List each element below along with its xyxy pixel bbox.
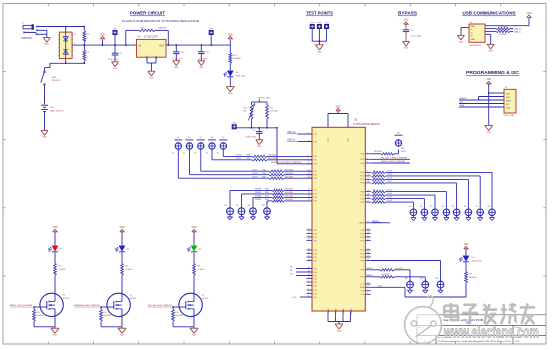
- ground for pad S12: [264, 215, 269, 220]
- svg-text:VDD: VDD: [228, 34, 233, 36]
- net label USB_D-: [514, 32, 522, 34]
- svg-text:360-0805: 360-0805: [285, 176, 293, 178]
- svg-text:0.1uF, 0603: 0.1uF, 0603: [411, 36, 422, 38]
- resistor R8 75-0805: [193, 263, 205, 276]
- ground for pad B3: [432, 216, 437, 221]
- svg-text:SDA: SDA: [360, 286, 365, 289]
- capacitor C3 10uF_0805: [198, 44, 210, 61]
- svg-text:10uF, 0805: 10uF, 0805: [198, 58, 209, 60]
- wire J2 GND pin to ground: [485, 34, 491, 44]
- resistor 360-0805 COL6 right: [372, 178, 469, 209]
- svg-text:POWER CIRCUIT: POWER CIRCUIT: [130, 11, 165, 16]
- svg-text:30: 30: [367, 235, 369, 237]
- wire bottom bus to mode LED: [405, 296, 466, 298]
- pad E13 XTLE: [395, 133, 407, 153]
- wire regulator bypass loop with R7: [125, 30, 169, 46]
- svg-text:R7: R7: [141, 27, 145, 29]
- capsense pad S10: [248, 205, 257, 215]
- svg-text:G: G: [342, 319, 344, 321]
- svg-text:D5: D5: [199, 249, 202, 251]
- LED D6 PWR_LED: [224, 71, 246, 78]
- svg-text:PLACE 0-OHM RESISTOR TO BYPASS: PLACE 0-OHM RESISTOR TO BYPASS REGULATOR: [122, 19, 200, 23]
- svg-text:46: 46: [367, 282, 369, 284]
- svg-text:20: 20: [367, 197, 369, 199]
- net label USB_D- wire to U2: [287, 140, 312, 142]
- wire SCL to J3: [459, 102, 504, 104]
- svg-text:GND: GND: [337, 330, 342, 332]
- net label GREEN LED DRIVE: [74, 305, 100, 307]
- capsense pad B3: [431, 206, 439, 216]
- ground GND below U4: [148, 71, 155, 79]
- ground GND bypass: [403, 41, 410, 49]
- svg-text:VDD: VDD: [464, 244, 469, 246]
- LED D4 MODE_LED: [460, 256, 483, 263]
- svg-text:C3: C3: [206, 52, 210, 54]
- svg-text:360: 360: [373, 174, 376, 176]
- capsense pad S8: [236, 205, 245, 215]
- svg-text:6: 6: [308, 292, 309, 294]
- svg-text:32: 32: [367, 239, 369, 241]
- svg-text:SDA: SDA: [378, 284, 383, 287]
- svg-text:GND: GND: [44, 44, 49, 46]
- svg-text:SW1: SW1: [52, 77, 58, 79]
- svg-text:37: 37: [308, 255, 310, 257]
- net label USB_D+ wire to U2: [287, 132, 312, 134]
- svg-text:S3: S3: [194, 152, 196, 154]
- resistor R4: [83, 44, 90, 64]
- ground GND below C2: [173, 61, 180, 69]
- svg-text:S5: S5: [452, 206, 454, 208]
- power flag VDD green led drive: [120, 227, 125, 246]
- resistor 360-0805 COL4 right: [372, 171, 493, 209]
- svg-text:VDD: VDD: [120, 227, 125, 229]
- ground for pad B5: [454, 216, 459, 221]
- wire R2 to Q1 drain: [54, 276, 56, 295]
- svg-text:TEST POINTS: TEST POINTS: [306, 11, 333, 16]
- svg-text:U4: U4: [138, 37, 142, 39]
- svg-text:R11: R11: [36, 312, 39, 314]
- LED D2 green: [116, 246, 130, 252]
- capsense pad E2: [186, 137, 194, 150]
- svg-text:COL7: COL7: [236, 158, 242, 160]
- svg-text:330-0805: 330-0805: [233, 58, 241, 60]
- resistor R14 2.2K-0805: [266, 102, 279, 128]
- capacitor C4 0.47uF 0805: [245, 128, 263, 140]
- svg-text:C4: C4: [253, 130, 256, 132]
- wire pad E1 to resistor row: [172, 150, 269, 178]
- wire mode bus down to U2: [276, 127, 312, 164]
- resistor 360-0805 COL7 right: [372, 181, 457, 209]
- capsense pad E3: [197, 137, 205, 150]
- wire Q1 source to ground: [34, 316, 55, 328]
- svg-text:26: 26: [367, 228, 369, 230]
- svg-text:360-0805: 360-0805: [285, 173, 293, 175]
- svg-text:GND: GND: [459, 41, 464, 43]
- capsense pad B2: [420, 206, 428, 216]
- net SDA wire from U2: [371, 284, 405, 297]
- svg-text:1.0uF_0805: 1.0uF_0805: [108, 59, 120, 61]
- svg-text:XRES: XRES: [506, 101, 512, 103]
- svg-text:S7: S7: [476, 206, 478, 208]
- svg-text:JUMPER: JUMPER: [499, 26, 507, 28]
- svg-text:48: 48: [367, 286, 369, 288]
- svg-text:GND: GND: [336, 308, 338, 313]
- test point TP2: [310, 22, 315, 41]
- power flag VDD programming: [486, 79, 491, 84]
- svg-text:COL4: COL4: [252, 176, 258, 178]
- svg-text:SW-SPDT: SW-SPDT: [52, 80, 62, 82]
- variable resistor R13: [243, 102, 255, 128]
- svg-text:RED LED DRIVE: RED LED DRIVE: [381, 161, 406, 163]
- svg-text:360: 360: [373, 197, 376, 199]
- svg-text:GND: GND: [113, 68, 118, 70]
- svg-text:JUMPER: JUMPER: [158, 27, 167, 29]
- wire gate Q2: [100, 306, 114, 308]
- wire D1 top pin: [65, 27, 67, 33]
- wire J1 middle pin to ground: [37, 30, 47, 37]
- svg-text:R4: R4: [87, 52, 91, 54]
- svg-text:R13: R13: [243, 107, 248, 109]
- ground GND below BT1: [41, 131, 48, 139]
- svg-text:33: 33: [308, 248, 310, 250]
- resistor 360-0805 COL0 right: [372, 190, 447, 209]
- resistor R24 360-0805 ROW3: [367, 274, 426, 281]
- net BLUE LED DRIVE wire: [371, 157, 410, 159]
- transistor Q3 2N7002: [179, 293, 209, 316]
- wire main 5V rail: [84, 44, 230, 46]
- voltage regulator U4 LT1121CST-5: [133, 37, 169, 60]
- section title BYPASS: [398, 11, 417, 16]
- svg-text:S8: S8: [488, 206, 490, 208]
- resistor R18 360-0805 COL6: [236, 155, 312, 158]
- svg-text:G: G: [327, 319, 329, 321]
- svg-text:D3: D3: [60, 249, 63, 251]
- svg-text:GND: GND: [228, 93, 233, 95]
- svg-text:360-0805: 360-0805: [374, 151, 382, 153]
- wire gate Q3: [172, 306, 186, 308]
- capsense pad E5: [219, 137, 227, 150]
- svg-text:1: 1: [367, 289, 368, 291]
- svg-text:Q1: Q1: [63, 295, 67, 297]
- svg-text:360-0805: 360-0805: [268, 155, 276, 157]
- svg-text:24: 24: [367, 221, 369, 223]
- svg-text:360: 360: [373, 178, 376, 180]
- svg-text:BATT-9-ALK-E: BATT-9-ALK-E: [51, 109, 65, 112]
- wire RESET to J3: [459, 98, 504, 100]
- svg-text:E17: E17: [405, 278, 408, 280]
- svg-text:GND: GND: [404, 48, 409, 50]
- watermark logo circle: [405, 296, 442, 343]
- resistor 360-0805 COL3 right: [372, 200, 414, 208]
- svg-text:IN: IN: [138, 45, 141, 48]
- resistor R23 360-0805 ROW2: [367, 268, 411, 281]
- svg-text:R0: R0: [290, 267, 292, 269]
- watermark text dian zi fa shao you: [444, 303, 535, 325]
- U2 right pin stubs and pin names: [359, 152, 371, 296]
- svg-text:VDD: VDD: [192, 227, 197, 229]
- svg-text:J2: J2: [470, 22, 473, 24]
- svg-text:D2: D2: [127, 249, 130, 251]
- capsense pad E17: [405, 278, 413, 288]
- svg-text:BLUE LED DRIVE: BLUE LED DRIVE: [381, 157, 408, 159]
- svg-text:COL1: COL1: [387, 193, 393, 195]
- capacitor C5 0.1uF 0603: [403, 30, 422, 42]
- ground GND below U2: [335, 324, 343, 332]
- wire R5 to Q2 drain: [121, 276, 123, 295]
- svg-text:27: 27: [308, 232, 310, 234]
- svg-text:360-0805: 360-0805: [382, 274, 390, 276]
- svg-text:+: +: [40, 102, 42, 104]
- section title USB COMMUNICATIONS: [462, 11, 516, 16]
- wire R8 to Q3 drain: [193, 276, 195, 295]
- svg-text:USB_D-: USB_D-: [514, 32, 522, 34]
- svg-text:COL2: COL2: [387, 197, 393, 199]
- switch SW1 SW-SPDT: [41, 63, 62, 85]
- net label BLUE LED DRIVE: [148, 305, 172, 307]
- svg-text:6: 6: [367, 161, 368, 163]
- resistor R14 360-0805 COL3: [252, 173, 312, 176]
- capacitor C2 0.1uF_0603: [172, 44, 185, 61]
- resistor R5 75-0805: [121, 263, 133, 276]
- svg-text:SCL: SCL: [506, 104, 510, 106]
- svg-text:PWRCON: PWRCON: [22, 38, 33, 40]
- svg-text:XRES: XRES: [359, 223, 365, 225]
- wire top rail from J1 to R3: [37, 26, 85, 28]
- svg-text:VBus: VBus: [471, 26, 476, 28]
- LED D5 blue: [188, 246, 202, 252]
- svg-text:RESET: RESET: [460, 98, 468, 100]
- wire J3 pin1 to VDD rail: [488, 92, 504, 94]
- svg-text:COL7: COL7: [387, 181, 393, 183]
- ground GND below C4: [256, 140, 263, 148]
- svg-text:VCC: VCC: [328, 137, 330, 142]
- note REMOVE LED DRIVE JUMPERS: [271, 162, 302, 164]
- power flag VDD USB: [527, 13, 532, 17]
- ground GND below J2: [487, 44, 494, 52]
- svg-text:ROW3: ROW3: [367, 275, 374, 277]
- transistor Q1 2N7002: [40, 293, 70, 316]
- svg-text:GND: GND: [53, 335, 58, 337]
- test point TP6: [209, 28, 214, 46]
- svg-text:GND: GND: [486, 132, 491, 134]
- net label RESET wire right: [371, 221, 390, 223]
- svg-text:4: 4: [308, 288, 309, 290]
- svg-text:COL6: COL6: [387, 178, 393, 180]
- svg-text:R2: R2: [290, 274, 292, 276]
- capsense pad B6: [464, 206, 472, 216]
- svg-text:28: 28: [367, 232, 369, 234]
- svg-text:5: 5: [168, 43, 169, 45]
- svg-text:GND: GND: [317, 51, 322, 53]
- svg-text:10K-0805: 10K-0805: [103, 315, 111, 317]
- wire D5 to R8: [193, 252, 195, 263]
- svg-text:D4: D4: [472, 257, 475, 259]
- ground GND below D6: [226, 87, 234, 96]
- wire U4 ground pins to GND: [147, 57, 156, 71]
- net label RED LED DRIVE: [10, 305, 33, 307]
- svg-text:VDD: VDD: [336, 106, 341, 108]
- svg-text:R12: R12: [103, 312, 106, 314]
- svg-text:S2: S2: [420, 206, 422, 208]
- section title PROGRAMMING & I2C: [466, 70, 519, 75]
- wire gate Q1: [33, 306, 47, 308]
- svg-text:GND: GND: [174, 67, 179, 69]
- svg-text:4: 4: [367, 158, 368, 160]
- svg-text:J1: J1: [22, 23, 25, 25]
- svg-text:BT1: BT1: [51, 107, 56, 109]
- watermark text www.elecfans.com: [443, 323, 539, 342]
- ground GND blue led drive: [190, 328, 198, 336]
- svg-text:ROW3: ROW3: [255, 199, 262, 201]
- svg-text:USB_D+: USB_D+: [514, 29, 523, 31]
- svg-text:www.elecfans.com: www.elecfans.com: [443, 323, 539, 342]
- capsense pad B5: [452, 206, 460, 216]
- wire Q2 source to ground: [101, 316, 122, 328]
- svg-text:SDA: SDA: [460, 104, 465, 107]
- svg-text:8: 8: [367, 171, 368, 173]
- svg-text:29: 29: [308, 235, 310, 237]
- resistor R21 360-0805 ROW2: [255, 196, 312, 199]
- wire D3 to R2: [54, 252, 56, 263]
- svg-text:12: 12: [367, 178, 369, 180]
- svg-text:COL0: COL0: [387, 190, 393, 192]
- svg-text:E13: E13: [397, 133, 400, 135]
- svg-text:TAB: TAB: [155, 55, 158, 59]
- svg-text:GND: GND: [120, 335, 125, 337]
- svg-text:R14: R14: [270, 107, 275, 109]
- svg-text:R15: R15: [175, 312, 178, 314]
- svg-text:E13: E13: [401, 148, 404, 150]
- svg-text:360-0805: 360-0805: [285, 196, 293, 198]
- svg-text:47: 47: [308, 277, 310, 279]
- svg-text:R10: R10: [233, 55, 238, 57]
- svg-text:COL4: COL4: [387, 171, 393, 173]
- resistor R2 75-0805: [54, 263, 66, 276]
- svg-text:S12: S12: [262, 205, 265, 207]
- ground for pad E19: [423, 288, 428, 293]
- ground GND below C1: [112, 62, 119, 70]
- wire pad S10 to row: [253, 197, 272, 207]
- ground GND programming: [485, 125, 493, 134]
- LED D3 red: [49, 246, 63, 252]
- ground for pad S6: [227, 215, 232, 220]
- svg-text:360-0805: 360-0805: [285, 189, 293, 191]
- svg-text:2N7002: 2N7002: [63, 298, 71, 300]
- svg-text:USB COMMUNICATIONS: USB COMMUNICATIONS: [463, 11, 516, 16]
- connector J1 PWRCON: [22, 23, 38, 40]
- capsense pad B7: [476, 206, 484, 216]
- wire D6 to ground: [229, 77, 231, 87]
- ground GND test points: [315, 45, 323, 54]
- power flag VDD at rail end: [228, 34, 233, 45]
- wire J2 shield to ground: [461, 28, 469, 36]
- svg-text:BYPASS: BYPASS: [398, 11, 417, 16]
- resistor R10 330-0805: [229, 45, 241, 70]
- svg-text:COL6: COL6: [236, 155, 242, 157]
- svg-text:COL2: COL2: [252, 169, 258, 171]
- wire pad E2 to resistor row: [183, 150, 269, 175]
- resistor R12 10K-0805: [100, 307, 111, 327]
- resistor 360-0805 COL1 right: [372, 193, 436, 208]
- svg-text:LT1121CST-5: LT1121CST-5: [144, 37, 159, 39]
- wire Q3 source to ground: [173, 316, 194, 328]
- connector J3 ISSP_CON: [504, 87, 517, 117]
- ground GND left of J2: [458, 35, 465, 43]
- wire VDD rail programming: [488, 84, 490, 126]
- resistor R7 JUMPER: [139, 27, 167, 31]
- svg-text:R2: R2: [58, 265, 61, 267]
- ground for pad S10: [250, 215, 255, 220]
- svg-text:USB MINI B: USB MINI B: [469, 45, 481, 47]
- svg-text:0: 0: [87, 57, 88, 59]
- resistor R9 22 on USB D-: [485, 30, 513, 36]
- wire U2 to pad row2 bottom right: [371, 261, 441, 282]
- svg-text:U2: U2: [354, 119, 358, 122]
- svg-text:39: 39: [308, 259, 310, 261]
- svg-text:D6: D6: [236, 72, 240, 74]
- svg-text:34: 34: [367, 248, 369, 250]
- capsense pad E21: [436, 278, 444, 288]
- svg-text:18: 18: [367, 193, 369, 195]
- wire D4 to R20: [465, 262, 467, 271]
- svg-text:COL5: COL5: [387, 174, 393, 176]
- U2 bottom pins to ground: [327, 311, 352, 324]
- battery BT1: [40, 102, 64, 112]
- ground for pad B8: [489, 216, 494, 221]
- svg-text:S6: S6: [225, 205, 227, 207]
- svg-text:Cap sense with LED PCB: Cap sense with LED PCB: [443, 318, 483, 322]
- net RED LED DRIVE wire: [371, 161, 410, 163]
- svg-text:VDD: VDD: [506, 94, 511, 96]
- svg-text:PWR_LED: PWR_LED: [236, 75, 246, 77]
- svg-text:2: 2: [74, 43, 75, 45]
- svg-text:2N7002: 2N7002: [202, 298, 210, 300]
- svg-text:360: 360: [373, 171, 376, 173]
- wire D2 to R5: [121, 252, 123, 263]
- svg-text:75-0805: 75-0805: [125, 269, 132, 271]
- svg-text:1: 1: [133, 43, 134, 45]
- svg-text:14: 14: [367, 181, 369, 183]
- test point TP1: [113, 28, 118, 46]
- capsense pad E1: [174, 137, 182, 150]
- ground GND green led drive: [118, 328, 126, 336]
- ground GND near J1: [43, 38, 50, 46]
- svg-text:S4: S4: [442, 206, 444, 208]
- svg-text:VDD: VDD: [527, 13, 532, 15]
- svg-text:COL3: COL3: [252, 173, 258, 175]
- wire test points junction: [312, 40, 326, 42]
- wire pad S6 to row: [230, 190, 272, 207]
- svg-text:S5: S5: [217, 152, 219, 154]
- svg-text:GND: GND: [192, 335, 197, 337]
- resistor R20 360-0805 ROW1: [255, 192, 312, 195]
- svg-text:GND: GND: [328, 308, 330, 313]
- svg-text:C5: C5: [411, 30, 415, 32]
- svg-text:S4: S4: [206, 152, 208, 154]
- svg-text:GND: GND: [257, 146, 262, 148]
- section title TEST POINTS: [306, 11, 333, 16]
- svg-text:E5: E5: [222, 137, 224, 139]
- svg-text:10K-0805: 10K-0805: [36, 315, 44, 317]
- svg-text:R20: R20: [469, 273, 474, 275]
- note PLACE 0-OHM RESISTOR TO BYPASS REGULATOR: [122, 19, 200, 23]
- svg-text:360: 360: [373, 190, 376, 192]
- wire pad S8 to row: [242, 194, 273, 207]
- svg-text:10k: 10k: [243, 111, 246, 113]
- svg-text:E4: E4: [211, 137, 213, 139]
- svg-text:Q3: Q3: [202, 295, 206, 297]
- power flag VDD mode LED: [464, 244, 469, 256]
